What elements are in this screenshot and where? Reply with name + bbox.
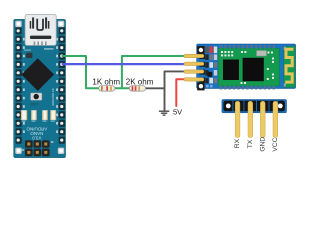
- ARDUINO NANO V3.0 silkscreen (rotated 180): [26, 127, 47, 141]
- silk text top: [44, 48, 54, 49]
- USB connector opening mark: [30, 17, 50, 28]
- svg-text:ARDUINO.CC: ARDUINO.CC: [51, 88, 55, 106]
- chip U3: [243, 58, 264, 81]
- svg-text:TX: TX: [247, 139, 254, 148]
- reset button SW1: [31, 93, 42, 100]
- svg-text:5V: 5V: [173, 108, 182, 117]
- HC-05 mounting holes: [199, 48, 203, 52]
- Arduino Nano board U1: [14, 19, 66, 157]
- svg-text:VCC: VCC: [272, 137, 279, 151]
- HC-05 SMD rows and LED: [205, 47, 217, 88]
- resistor R1 1K: [99, 86, 115, 91]
- wire: green segment between R1 and R2 up to HC-05 RXD pin: [115, 56, 185, 88]
- pin1 mark: [22, 149, 25, 150]
- HC-05 module: blue carrier board: [197, 44, 296, 89]
- left pad holes: [17, 29, 20, 142]
- chip U2: [223, 60, 239, 81]
- svg-text:GND: GND: [259, 137, 266, 152]
- svg-text:ARDUINO: ARDUINO: [26, 127, 47, 132]
- wire: green from Arduino TX pad down to resistor R1: [62, 56, 99, 88]
- small SMD component: [26, 53, 32, 58]
- pin header holes: [226, 104, 231, 109]
- ground symbol: [159, 111, 169, 115]
- castellation dots bottom edge: [220, 86, 275, 90]
- right pad holes: [60, 29, 63, 142]
- left pad strip: [16, 27, 22, 144]
- resistor R2 2K: [129, 86, 145, 91]
- svg-text:1K ohm: 1K ohm: [92, 77, 120, 86]
- right pad strip: [59, 27, 65, 144]
- SMD specks on green PCB: [221, 51, 274, 84]
- antenna zigzag: [285, 49, 293, 82]
- pin header black cells: [223, 101, 285, 112]
- HC-05 antenna panel: [284, 46, 295, 87]
- HC-05 gold pins: [184, 54, 204, 81]
- crystal Y1: [257, 51, 267, 57]
- HC-05 black pin pads on left edge: [197, 46, 205, 90]
- HC-05 green radio PCB: [218, 48, 279, 86]
- header gold pins: [235, 101, 278, 137]
- castellation dots top edge: [220, 45, 275, 49]
- ICSP header: [25, 140, 50, 156]
- mounting holes: [15, 21, 64, 154]
- SMD passives row: [21, 110, 56, 121]
- wire: dark gray from R2 to GND and HC-05 GND pin: [146, 71, 185, 111]
- wire: red 5V to HC-05 VCC pin: [176, 79, 184, 107]
- svg-text:2K ohm: 2K ohm: [126, 77, 154, 86]
- svg-text:RX: RX: [234, 138, 241, 148]
- mini-USB connector J1: [25, 14, 56, 45]
- svg-text:USB: USB: [30, 102, 38, 106]
- wire: blue from Arduino RX pad to HC-05 TXD pin: [62, 63, 185, 65]
- ATmega328 chip (rotated square): [21, 58, 54, 91]
- pin label silkscreen marks: [23, 38, 58, 133]
- pin header J2: blue base: [222, 100, 287, 113]
